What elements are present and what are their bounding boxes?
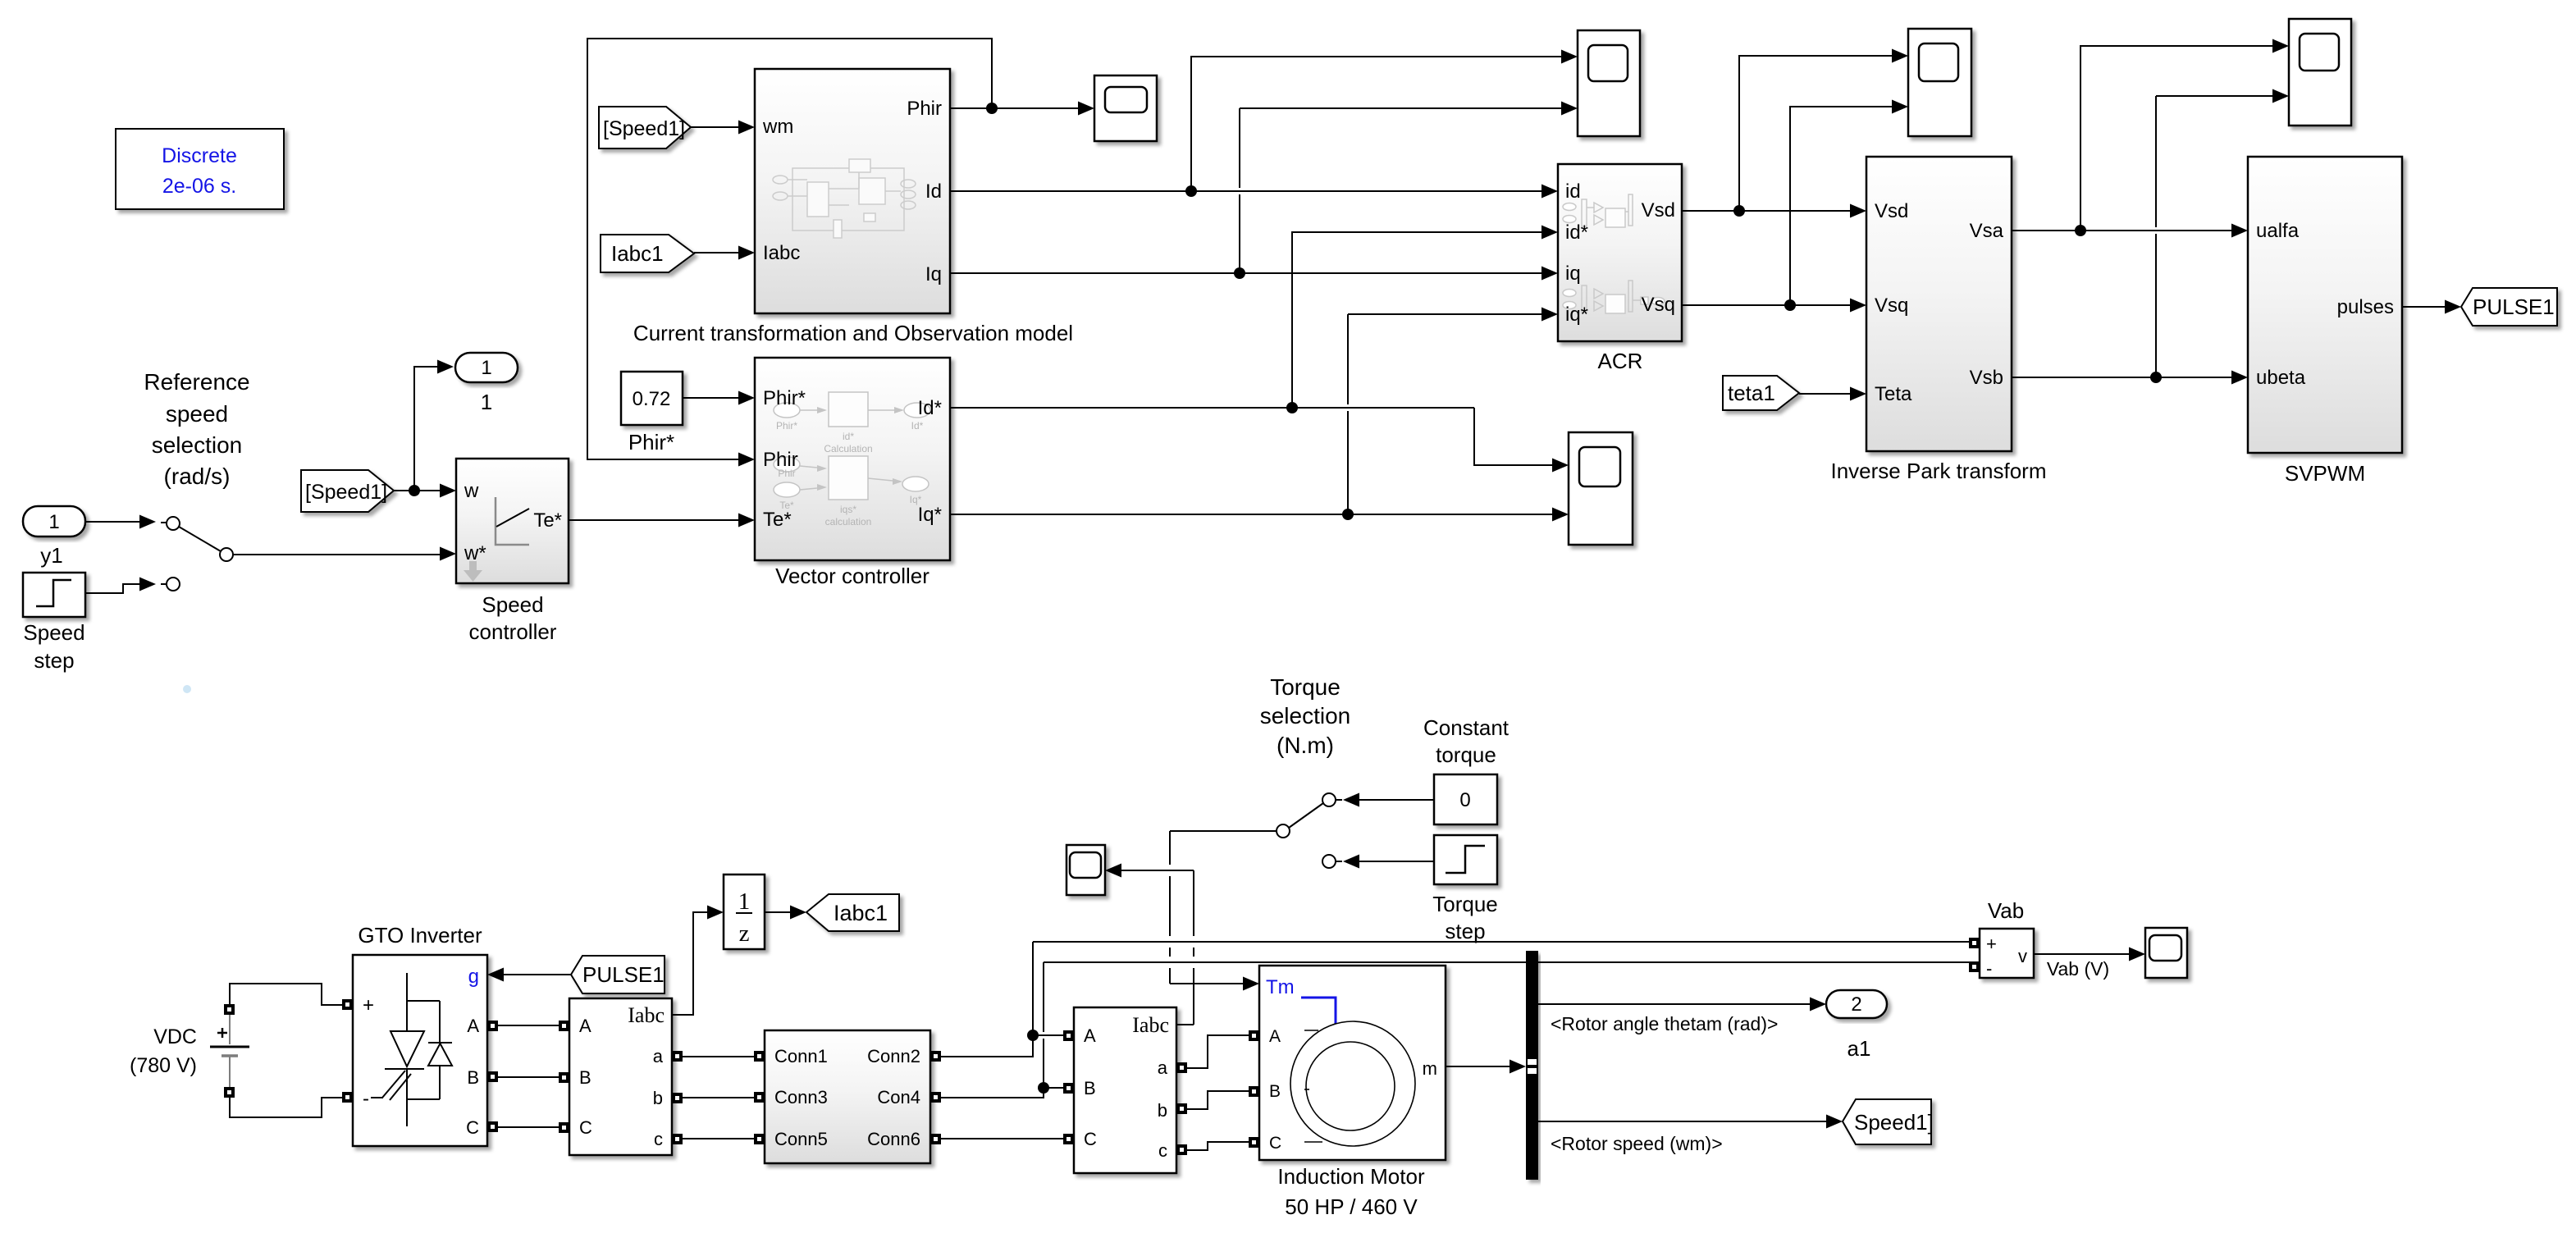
wire meas1 a to Conn1	[683, 1056, 754, 1057]
svg-text:+: +	[1986, 934, 1997, 954]
svg-text:Iabc: Iabc	[1132, 1013, 1169, 1037]
wire Con4 to meas2 B with branch to Vab -	[941, 962, 1063, 1098]
svg-text:2e-06 s.: 2e-06 s.	[162, 175, 236, 198]
subsystem: Inverse Park transform	[1831, 157, 2047, 483]
svg-text:Vsq: Vsq	[1642, 294, 1675, 316]
subsystem: ACR	[1558, 164, 1682, 373]
svg-text:50 HP / 460 V: 50 HP / 460 V	[1285, 1194, 1418, 1219]
svg-text:a1: a1	[1848, 1036, 1871, 1061]
wire Vab to scope	[2034, 953, 2129, 955]
wire Conn2 to meas2 A with branch to Vab +	[941, 942, 1063, 1057]
svg-text:iqs*: iqs*	[840, 504, 856, 515]
wire meas2 Iabc up to scope	[1105, 864, 1194, 1025]
svg-text:Iabc: Iabc	[763, 242, 800, 264]
svg-text:PULSE1: PULSE1	[2473, 295, 2555, 319]
block: GTO Inverter	[342, 923, 498, 1146]
svg-text:m: m	[1423, 1058, 1437, 1079]
svg-text:speed: speed	[166, 401, 228, 427]
svg-text:(rad/s): (rad/s)	[164, 464, 231, 489]
svg-text:g: g	[468, 966, 479, 988]
svg-text:iq: iq	[1565, 263, 1581, 285]
wire Iabc1 to Iabc	[694, 252, 738, 253]
svg-text:<Rotor angle thetam (rad)>: <Rotor angle thetam (rad)>	[1551, 1013, 1778, 1034]
svg-text:v: v	[2018, 946, 2027, 966]
scope ualfa ubeta	[2289, 19, 2351, 126]
phase A line to Vab plus	[1033, 941, 1969, 943]
constant 0.72	[621, 372, 683, 454]
wire switch to Tm	[1170, 831, 1277, 991]
annotation block: Discrete 2e-06 s.	[116, 129, 284, 209]
svg-text:iq*: iq*	[1565, 304, 1588, 326]
wire Vsb to SVPWM ubeta and scope	[2012, 89, 2289, 385]
svg-text:Con4: Con4	[877, 1087, 920, 1107]
svg-text:B: B	[579, 1067, 591, 1088]
wire Speed step to switch	[85, 578, 167, 594]
svg-text:0: 0	[1459, 789, 1470, 811]
svg-text:-: -	[363, 1088, 369, 1110]
subsystem: Speed controller	[456, 459, 569, 644]
wire GTO B to measurement B	[498, 1076, 559, 1078]
svg-text:Iabc: Iabc	[628, 1003, 665, 1027]
wire y1 to switch	[85, 515, 167, 529]
svg-text:C: C	[579, 1117, 592, 1138]
svg-text:B: B	[1084, 1078, 1096, 1098]
svg-text:Constant: Constant	[1423, 715, 1510, 740]
wire PULSE1 to g	[504, 974, 571, 975]
wire motor m to bus selector	[1446, 1066, 1510, 1067]
svg-text:id: id	[1565, 180, 1581, 203]
wire 1/z to Iabc1 goto	[765, 911, 790, 913]
svg-text:torque: torque	[1436, 742, 1496, 767]
svg-text:Phir: Phir	[763, 449, 798, 471]
bus selector bar	[1526, 951, 1538, 1180]
svg-text:Te*: Te*	[763, 509, 792, 531]
svg-text:Id: Id	[925, 180, 942, 203]
wire meas1 c to Conn5	[683, 1138, 754, 1139]
svg-text:w*: w*	[464, 542, 486, 564]
svg-text:VDC: VDC	[153, 1025, 197, 1048]
svg-text:ubeta: ubeta	[2256, 367, 2306, 389]
wire VDC- to GTO -	[230, 1098, 342, 1117]
svg-text:Id*: Id*	[911, 420, 924, 432]
inport y1	[23, 506, 85, 568]
svg-text:<Rotor speed (wm)>: <Rotor speed (wm)>	[1551, 1133, 1723, 1154]
subsystem: Vector controller	[755, 358, 950, 588]
annotation text: Reference speed selection (rad/s)	[144, 369, 249, 489]
svg-text:A: A	[467, 1016, 479, 1036]
From tag [Speed1] (speed controller input)	[301, 470, 394, 512]
svg-text:w: w	[464, 480, 479, 502]
svg-text:step: step	[1445, 919, 1485, 943]
svg-text:-: -	[1986, 958, 1992, 979]
wire switch to w*	[240, 554, 440, 555]
svg-text:Speed1]: Speed1]	[1854, 1110, 1934, 1135]
svg-text:Conn5: Conn5	[774, 1129, 828, 1149]
svg-text:Torque: Torque	[1432, 892, 1498, 916]
wire meas2 a to motor A	[1187, 1035, 1249, 1068]
svg-text:a: a	[1158, 1057, 1168, 1078]
svg-text:GTO Inverter: GTO Inverter	[358, 923, 482, 948]
scope Phir	[1094, 75, 1157, 141]
svg-text:Iq: Iq	[925, 263, 942, 285]
svg-text:Conn3: Conn3	[774, 1087, 828, 1107]
svg-text:1: 1	[738, 888, 751, 915]
wire VDC+ to GTO +	[230, 984, 342, 1005]
wire Speed1 to w with branch to outport 1	[394, 360, 456, 498]
svg-text:Phir*: Phir*	[763, 387, 806, 409]
svg-text:a: a	[653, 1046, 664, 1066]
svg-text:calculation: calculation	[825, 516, 872, 527]
svg-text:b: b	[1158, 1100, 1167, 1121]
wire Vsd to Inverse Park and scope	[1682, 49, 1908, 218]
svg-text:pulses: pulses	[2337, 296, 2394, 318]
From tag Iabc1 (Iabc input)	[601, 235, 694, 272]
Goto tag Iabc1	[806, 894, 899, 931]
svg-text:Inverse Park transform: Inverse Park transform	[1831, 459, 2047, 483]
svg-text:Iq*: Iq*	[918, 504, 942, 526]
svg-text:Phir: Phir	[907, 98, 942, 120]
wire bus to outport 2	[1538, 1003, 1810, 1005]
svg-text:c: c	[654, 1129, 663, 1149]
svg-text:teta1: teta1	[1728, 381, 1775, 405]
svg-text:1: 1	[481, 390, 492, 414]
annotation: Torque selection (N.m)	[1260, 674, 1351, 758]
svg-text:Conn6: Conn6	[867, 1129, 920, 1149]
wire Speed1 to wm	[691, 126, 738, 128]
svg-text:PULSE1: PULSE1	[582, 962, 665, 987]
block: series RLC branch	[754, 1030, 941, 1163]
wire pulses to PULSE1	[2402, 306, 2445, 308]
svg-text:Reference: Reference	[144, 369, 249, 395]
scope id iq	[1578, 30, 1640, 136]
svg-text:1: 1	[481, 357, 491, 379]
svg-text:Conn1: Conn1	[774, 1046, 828, 1066]
block: Vab voltage measurement	[1969, 898, 2034, 979]
wire teta1 to Teta	[1799, 393, 1850, 395]
svg-text:C: C	[1084, 1129, 1097, 1149]
svg-text:A: A	[579, 1016, 591, 1036]
svg-text:Induction Motor: Induction Motor	[1277, 1164, 1425, 1189]
svg-text:Vab (V): Vab (V)	[2047, 958, 2109, 980]
svg-text:Speed: Speed	[482, 592, 543, 617]
svg-text:selection: selection	[1260, 703, 1351, 728]
svg-text:Vsd: Vsd	[1642, 199, 1675, 221]
From tag [Speed1] (wm input)	[599, 107, 691, 148]
svg-text:Vector controller: Vector controller	[775, 564, 929, 588]
svg-text:controller: controller	[469, 619, 557, 644]
svg-text:Vsq: Vsq	[1875, 295, 1908, 317]
svg-text:Id*: Id*	[918, 397, 942, 419]
svg-text:1: 1	[48, 511, 59, 533]
svg-text:id*: id*	[1565, 221, 1588, 244]
wire Id* to ACR id* and scope	[950, 226, 1569, 473]
block: three-phase VI measurement 2	[1063, 1007, 1187, 1173]
svg-text:B: B	[1269, 1082, 1281, 1101]
annotation: Constant torque	[1423, 715, 1510, 767]
wire Te* to Vector controller	[569, 519, 738, 521]
scope Iabc	[1066, 845, 1105, 895]
svg-text:z: z	[739, 920, 750, 947]
svg-text:Vsa: Vsa	[1970, 220, 2004, 242]
wire meas2 b to motor B	[1187, 1091, 1249, 1109]
svg-text:wm: wm	[762, 116, 793, 138]
svg-text:A: A	[1269, 1027, 1281, 1046]
From tag PULSE1 (gate)	[571, 956, 665, 993]
svg-text:Calculation: Calculation	[824, 443, 872, 454]
wire 0.72 to Phir*	[683, 397, 738, 399]
Goto tag PULSE1	[2461, 288, 2557, 326]
wire Iq to ACR iq with branch to scope2	[950, 102, 1578, 281]
source block: Speed step	[23, 573, 85, 673]
svg-text:Iabc1: Iabc1	[611, 241, 664, 266]
svg-text:Vsb: Vsb	[1970, 367, 2003, 389]
wire Conn6 to meas2 C	[941, 1138, 1063, 1139]
small blue dot artifact	[183, 685, 191, 693]
torque switch	[1277, 793, 1434, 869]
Goto tag Speed1	[1843, 1099, 1934, 1144]
svg-text:[Speed1]: [Speed1]	[305, 481, 387, 504]
wire Vsq to Inverse Park and scope	[1682, 100, 1908, 313]
wire GTO C to measurement C	[498, 1126, 559, 1128]
svg-text:+: +	[363, 994, 374, 1016]
svg-text:Vab: Vab	[1988, 898, 2024, 923]
svg-text:Te*: Te*	[533, 509, 562, 532]
svg-text:C: C	[1269, 1134, 1281, 1153]
svg-text:0.72: 0.72	[633, 388, 671, 410]
wire bus to Speed1 goto	[1538, 1121, 1826, 1122]
svg-text:B: B	[467, 1067, 479, 1088]
source block: Torque step	[1432, 835, 1498, 943]
svg-text:Torque: Torque	[1270, 674, 1341, 700]
constant 0	[1434, 774, 1497, 824]
svg-text:Conn2: Conn2	[867, 1046, 920, 1066]
subsystem: Current transformation and Observation model	[633, 69, 1073, 345]
svg-text:Teta: Teta	[1875, 383, 1912, 405]
svg-text:SVPWM: SVPWM	[2285, 461, 2365, 486]
svg-text:C: C	[466, 1117, 479, 1138]
svg-text:ACR: ACR	[1598, 349, 1643, 373]
wire Iabc to 1/z	[672, 906, 724, 1016]
svg-text:y1: y1	[40, 543, 62, 568]
svg-text:selection: selection	[152, 432, 243, 458]
svg-text:ualfa: ualfa	[2256, 220, 2300, 242]
outport 1	[455, 353, 518, 414]
svg-text:Phir*: Phir*	[776, 420, 797, 432]
wire Phir to scope1 with feedback branch	[587, 39, 1094, 467]
outport 2	[1826, 990, 1887, 1061]
wire Vsa to SVPWM ualfa and scope	[2012, 39, 2289, 238]
svg-text:Speed: Speed	[23, 620, 84, 645]
svg-text:Phir*: Phir*	[628, 430, 674, 454]
block: three-phase VI measurement 1	[559, 998, 683, 1155]
wire meas2 c to motor C	[1187, 1142, 1249, 1150]
manual switch	[167, 517, 240, 591]
svg-text:Current transformation and Obs: Current transformation and Observation m…	[633, 321, 1073, 345]
svg-text:b: b	[653, 1088, 663, 1108]
wire GTO A to measurement A	[498, 1025, 559, 1026]
VDC battery source	[130, 1004, 249, 1098]
svg-text:step: step	[34, 648, 74, 673]
block: Induction Motor	[1249, 966, 1446, 1219]
svg-text:Tm: Tm	[1266, 976, 1295, 998]
wire Id to ACR id with branch to scope2	[950, 50, 1578, 199]
svg-text:(780 V): (780 V)	[130, 1054, 197, 1077]
svg-text:[Speed1]: [Speed1]	[603, 117, 685, 140]
svg-text:A: A	[1084, 1025, 1096, 1046]
unit delay 1/z	[724, 875, 765, 949]
svg-text:(N.m): (N.m)	[1277, 733, 1334, 758]
svg-text:c: c	[1158, 1140, 1167, 1161]
svg-text:Vsd: Vsd	[1875, 200, 1908, 222]
subsystem: SVPWM	[2248, 157, 2402, 486]
From tag teta1	[1723, 376, 1799, 410]
scope Vab	[2145, 928, 2187, 978]
scope Vsd Vsq	[1908, 29, 1971, 136]
svg-text:Iabc1: Iabc1	[834, 901, 888, 925]
phase B line to Vab minus	[1044, 961, 1969, 963]
svg-text:Discrete: Discrete	[162, 144, 237, 167]
scope id* iq*	[1569, 432, 1633, 545]
wire Iq* to ACR iq* and scope	[950, 308, 1569, 522]
wire meas1 b to Conn3	[683, 1097, 754, 1098]
svg-text:2: 2	[1851, 993, 1861, 1016]
svg-text:id*: id*	[843, 431, 854, 442]
